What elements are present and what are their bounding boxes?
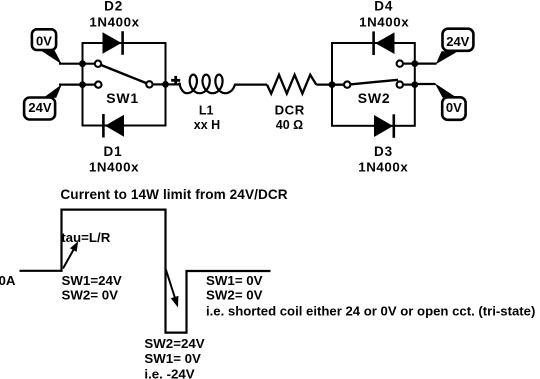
svg-text:SW1= 0V: SW1= 0V (144, 351, 201, 366)
svg-text:24V: 24V (446, 34, 469, 49)
svg-text:40 Ω: 40 Ω (276, 118, 303, 132)
svg-text:SW1= 0V: SW1= 0V (206, 273, 263, 288)
svg-text:tau=L/R: tau=L/R (61, 230, 111, 245)
left switch box SW1 enclosure (83, 43, 166, 126)
svg-text:SW2=24V: SW2=24V (144, 336, 204, 351)
svg-text:D4: D4 (374, 0, 393, 14)
svg-text:SW2: SW2 (358, 90, 391, 106)
callout 0V left (32, 29, 62, 64)
right switch box SW2 enclosure (332, 43, 415, 126)
node + polarity mark (171, 76, 180, 85)
wire coil to resistor (235, 83, 267, 85)
svg-text:D2: D2 (104, 0, 123, 14)
callout 24V right (436, 29, 474, 64)
wire resistor to SW2 box (316, 83, 347, 85)
svg-text:SW1=24V: SW1=24V (62, 273, 122, 288)
SW1 throw contact bottom (95, 81, 101, 87)
svg-text:0A: 0A (0, 273, 16, 288)
wire to 24V-right callout (415, 62, 437, 64)
wire 24V-left to SW1 bottom throw (59, 83, 96, 85)
svg-text:1N400x: 1N400x (89, 14, 139, 29)
diode D4 (374, 31, 395, 55)
svg-text:Current to 14W limit from 24V/: Current to 14W limit from 24V/DCR (60, 187, 287, 202)
svg-text:SW1: SW1 (106, 90, 139, 106)
node junction dot left-bottom (79, 81, 86, 88)
svg-text:1N400x: 1N400x (358, 160, 408, 175)
svg-text:D1: D1 (103, 144, 122, 159)
node junction dot right-bottom (411, 81, 418, 88)
wire SW2 top throw to box edge (404, 62, 415, 64)
svg-text:i.e. -24V: i.e. -24V (144, 367, 194, 379)
svg-text:1N400x: 1N400x (359, 14, 409, 29)
wire SW1 pole to box edge (154, 83, 169, 85)
svg-text:i.e. shorted coil either 24 or: i.e. shorted coil either 24 or 0V or ope… (206, 304, 535, 319)
callout 24V left (24, 84, 62, 119)
resistor DCR (267, 75, 316, 94)
arrow falling (down-right) (166, 269, 179, 307)
node junction dot left-top (79, 60, 86, 67)
node junction dot SW1 output (162, 81, 169, 88)
node junction dot SW2 input (329, 81, 336, 88)
svg-text:xx H: xx H (194, 118, 220, 132)
svg-text:L1: L1 (199, 103, 214, 117)
wire SW1 output to coil (166, 83, 182, 85)
waveform trace (20, 210, 271, 333)
svg-text:D3: D3 (374, 144, 393, 159)
wire 0V-left to SW1 top throw (59, 63, 96, 65)
svg-text:0V: 0V (446, 100, 462, 115)
diode D2 (103, 31, 123, 55)
wire to 0V-right callout (415, 83, 436, 85)
callout 0V right (435, 83, 466, 120)
SW2 throw contact top (397, 60, 403, 66)
SW2 throw contact bottom (397, 81, 403, 87)
svg-text:SW2= 0V: SW2= 0V (206, 288, 263, 303)
SW1 pole contact (146, 81, 152, 87)
svg-text:24V: 24V (28, 100, 51, 115)
svg-text:0V: 0V (36, 33, 52, 48)
diode D1 (103, 114, 124, 138)
node junction dot right-top (411, 60, 418, 67)
SW2 pole contact (344, 81, 350, 87)
wire SW2 input to pole (332, 83, 343, 85)
diode D3 (374, 114, 394, 138)
svg-text:DCR: DCR (275, 103, 305, 118)
switch SW1 arm (98, 64, 149, 85)
wire SW2 bottom throw to box edge (404, 83, 415, 85)
svg-text:SW2= 0V: SW2= 0V (62, 288, 119, 303)
switch SW2 arm (350, 80, 398, 85)
SW1 throw contact top (95, 61, 101, 67)
inductor L1 (180, 75, 235, 94)
arrow tau (up-right) (63, 241, 78, 268)
svg-text:1N400x: 1N400x (89, 160, 139, 175)
